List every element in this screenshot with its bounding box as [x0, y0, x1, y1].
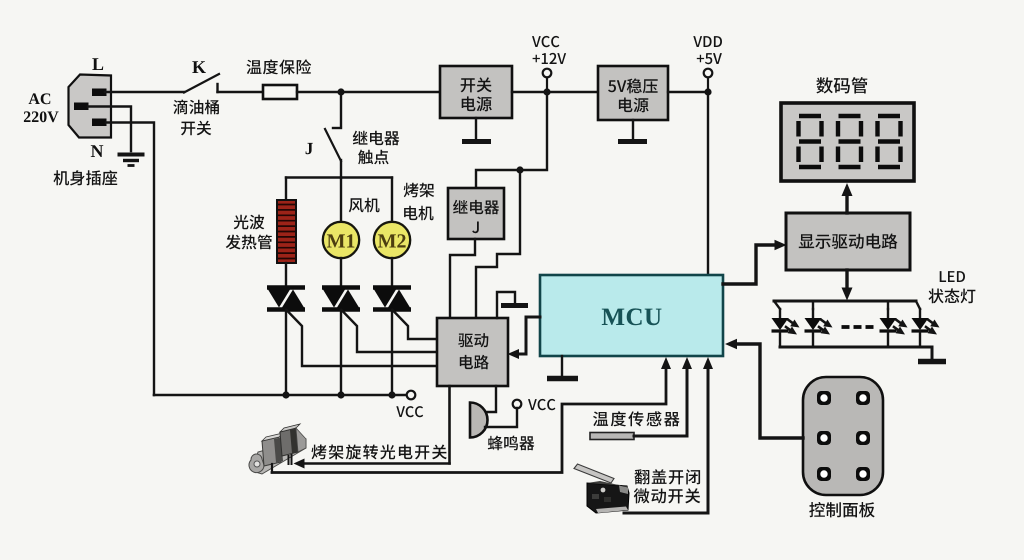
- ground under 5V regulator: [618, 120, 647, 142]
- buzzer BZ 蜂鸣器: [470, 403, 488, 438]
- wire PSU to VCC node: [512, 91, 598, 93]
- label N: [91, 145, 104, 157]
- LED D1: [772, 301, 800, 347]
- wire earth prong: [88, 107, 131, 152]
- arrow MCU to display driver: [723, 240, 787, 284]
- wire switch K to fuse: [218, 91, 264, 93]
- wire M2 to triac Q3: [391, 258, 393, 288]
- wire node A down: [340, 92, 342, 126]
- ground near drive circuit: [497, 292, 528, 318]
- wire Q2 to bus: [340, 310, 342, 395]
- wire VDD stem: [707, 78, 709, 93]
- label J: [306, 143, 313, 154]
- wire sensor to MCU: [634, 357, 692, 436]
- label 驱动电路: [458, 333, 489, 369]
- 5V regulator box: [598, 66, 668, 120]
- wire N to bottom bus: [106, 123, 154, 396]
- arrow driver to display: [842, 183, 853, 213]
- wire M1 to triac Q2: [340, 258, 342, 288]
- triac Q1: [267, 288, 305, 310]
- label L: [92, 58, 103, 70]
- junction node A: [337, 88, 344, 95]
- arrow control panel to MCU: [725, 339, 803, 438]
- ground under switching PSU: [462, 118, 491, 142]
- 7-seg digit 2: [838, 116, 861, 167]
- triac Q3: [373, 288, 411, 310]
- label 滴油桶开关: [173, 100, 219, 136]
- wire node A to PSU: [341, 91, 440, 93]
- label 显示驱动电路: [799, 234, 898, 249]
- switching power supply box: [440, 66, 512, 118]
- gate wire Q2: [342, 310, 438, 352]
- wire photo switch to MCU: [272, 357, 671, 473]
- wire to motor M2: [391, 178, 393, 225]
- label 继电器 J (box): [453, 200, 499, 233]
- label VCC (buzzer): [528, 399, 555, 410]
- label 控制面板: [809, 502, 874, 518]
- wire micro switch to MCU: [624, 357, 713, 513]
- label 温度保险: [247, 59, 312, 74]
- control panel body: [803, 377, 883, 495]
- terminal VCC (buzzer): [513, 400, 522, 409]
- mains plug (AC inlet) body: [69, 75, 112, 138]
- switch K blade: [184, 74, 219, 93]
- heater 光波发热管 element: [277, 200, 296, 263]
- relay contact J tick: [333, 127, 341, 129]
- photo interrupter switch icon: [249, 424, 306, 474]
- arrow MCU to drive circuit: [508, 317, 541, 359]
- 7-seg digit 3: [878, 116, 901, 167]
- label 开关电源: [461, 77, 492, 111]
- label MCU: [602, 308, 662, 325]
- wire relay J to drive circuit: [450, 239, 475, 318]
- terminal VDD +5V: [704, 69, 713, 78]
- junction VDD +5V: [704, 88, 711, 95]
- LED D2: [805, 301, 833, 347]
- gate wire Q1: [287, 310, 438, 366]
- earth ground symbol: [118, 155, 145, 166]
- label 温度传感器: [593, 411, 679, 426]
- LED top bus: [774, 300, 916, 303]
- wire buzzer to VCC: [485, 408, 517, 427]
- fuse 温度保险 body: [263, 85, 297, 99]
- label 蜂鸣器: [488, 436, 535, 451]
- label VCC (bus): [396, 406, 423, 417]
- photo switch pin 2: [289, 455, 292, 464]
- label 继电器触点: [353, 131, 400, 165]
- wire VDD to MCU: [707, 92, 709, 275]
- wire 5V to VDD node: [668, 91, 708, 93]
- junction VCC +12V: [543, 88, 550, 95]
- label 风机: [349, 198, 380, 213]
- wire to heater: [285, 178, 287, 202]
- wire Q1 to bus: [285, 310, 287, 395]
- control panel buttons: [817, 391, 870, 481]
- wire Q3 to bus: [391, 310, 393, 395]
- plug prong earth: [74, 103, 89, 111]
- drive circuit box 驱动电路: [437, 318, 508, 386]
- gate wire Q3: [393, 310, 438, 339]
- junction Q3-bus: [388, 391, 395, 398]
- ground under MCU: [547, 356, 578, 379]
- wire contact J down: [340, 160, 342, 178]
- ground under LEDs: [918, 347, 946, 362]
- label K: [192, 61, 206, 73]
- wire VCC rail down: [476, 92, 547, 188]
- junction Q1-bus: [282, 391, 289, 398]
- LED D3: [880, 301, 908, 347]
- label 5V稳压电源: [608, 78, 658, 112]
- plug prong N: [92, 119, 107, 127]
- 7-seg digit 1: [799, 116, 822, 167]
- wire fuse to node: [297, 91, 341, 93]
- MCU U1 box: [540, 275, 723, 356]
- label 翻盖开闭微动开关: [634, 469, 701, 503]
- label AC 220V: [24, 93, 59, 122]
- junction VCC rail: [516, 166, 523, 173]
- wire terminal stem: [546, 78, 548, 93]
- junction Q2-bus: [337, 391, 344, 398]
- triac Q2: [322, 288, 360, 310]
- wire L to switch K: [105, 91, 184, 93]
- seven-segment display box: [781, 103, 914, 181]
- relay contact J blade: [325, 129, 341, 161]
- temperature sensor probe: [590, 433, 634, 440]
- motor M1 (风机 fan): [323, 222, 359, 258]
- terminal VCC +12V: [543, 69, 552, 78]
- motor M2 (烤架电机 grill motor): [374, 222, 410, 258]
- label VCC +12V: [532, 36, 566, 64]
- terminal VCC (bus): [407, 391, 416, 400]
- LED bottom bus: [780, 346, 932, 349]
- LED D4: [912, 301, 940, 347]
- label 数码管: [816, 77, 867, 93]
- label 机身插座 (body socket): [54, 170, 118, 185]
- wire drive circuit down: [448, 386, 451, 464]
- label LED 状态灯: [929, 271, 976, 303]
- plug prong L: [92, 89, 107, 97]
- label 烤架旋转光电开关: [312, 445, 447, 460]
- wire rail to drive circuit: [476, 170, 520, 318]
- arrow driver to LEDs: [842, 270, 853, 301]
- relay J box: [448, 188, 504, 239]
- wire feeder: [286, 176, 392, 178]
- arrow wire drive to photo switch: [294, 459, 450, 469]
- wire drive to buzzer: [484, 386, 496, 412]
- label VDD +5V: [693, 36, 722, 64]
- wire to motor M1: [340, 178, 342, 225]
- wire heater to triac Q1: [285, 263, 287, 288]
- bottom bus wire: [154, 394, 407, 397]
- LED row dashes: [842, 325, 874, 329]
- label 光波发热管: [226, 215, 272, 250]
- micro switch icon 翻盖开闭微动开关: [574, 464, 629, 513]
- display driver box 显示驱动电路: [786, 213, 910, 270]
- label 烤架电机: [404, 183, 435, 221]
- photo switch pin 1: [271, 464, 273, 473]
